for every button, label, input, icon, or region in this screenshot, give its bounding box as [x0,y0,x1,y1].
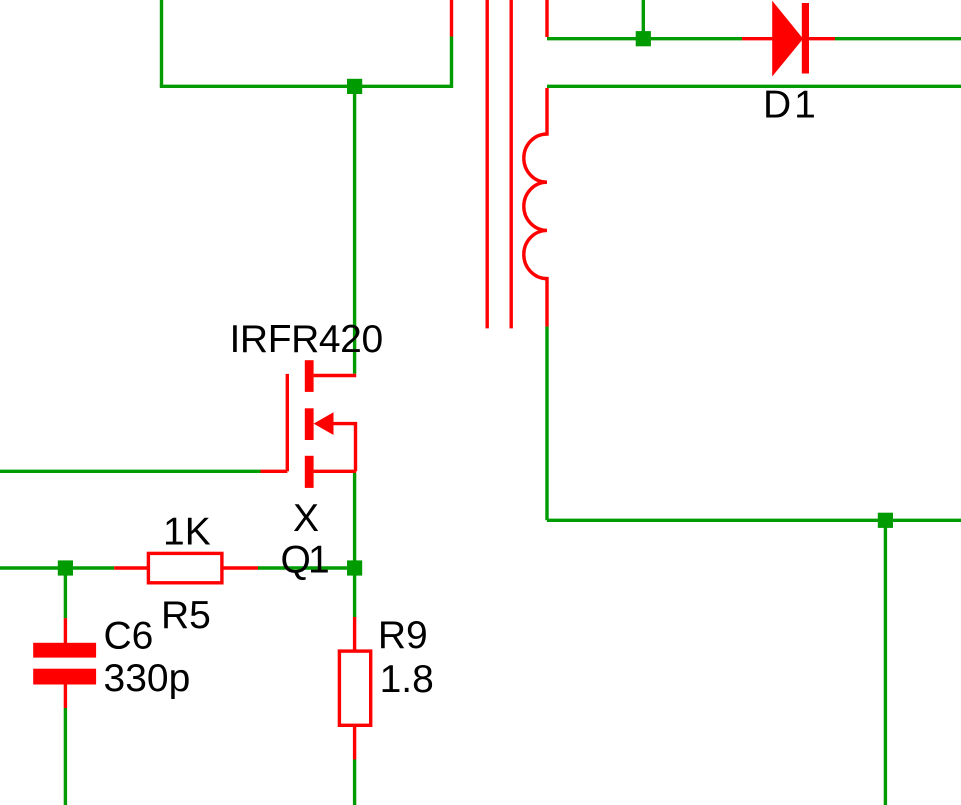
wire: secondary top net horizontal [547,85,961,88]
diode D1 cathode bar [802,3,809,74]
wire: C6 vertical [64,568,67,618]
resistor R9 top pin wire [353,617,356,651]
transformer T1 secondary winding: top lead, 3 arcs, bottom lead [524,88,547,327]
wire: R9 bottom vertical [353,760,356,805]
capacitor C6 top pin wire [64,618,67,643]
wire: C6 bottom vertical [64,708,67,805]
capacitor C6 plate 1 [33,643,96,658]
svg-text:D1: D1 [763,83,819,126]
transformer T1 primary bottom pin wire [450,0,453,37]
wire: left vertical of drain net [160,0,163,86]
wire: secondary bottom vertical [545,327,548,521]
wire: R5 net horizontal [0,566,114,569]
svg-text:R9: R9 [378,614,428,657]
node: Q1 source junction [347,560,362,575]
capacitor C6 bottom pin wire [64,685,67,709]
svg-text:X: X [293,497,319,540]
wire: secondary bottom horizontal [547,519,961,522]
capacitor C6 plate 2 [33,669,96,685]
svg-text:R5: R5 [161,594,211,637]
transformer T1 aux winding bottom pin wire [545,0,548,37]
node: secondary bottom junction [878,513,893,528]
transistor Q1: source tap [314,470,357,473]
transistor Q1: channel bar 3 (source) [305,456,314,488]
resistor R5 right pin wire [222,566,258,569]
transistor Q1: channel bar 1 (drain) [305,360,314,392]
wire: source vertical down to junction [353,473,356,568]
svg-text:Q1: Q1 [281,539,329,582]
transistor Q1: gate pin wire [261,470,288,473]
transistor Q1: body diode arrow [314,412,334,435]
diode D1 cathode pin wire [808,37,835,40]
wire: R9 top vertical [353,568,356,617]
diode D1 anode pin wire [742,37,774,40]
wire: aux net horizontal (top right) [547,37,742,40]
resistor R5 body [148,553,222,582]
wire: vertical up from aux net junction [642,0,645,39]
node: C6 junction [58,560,73,575]
wire: vertical down from secondary bottom junction [884,520,887,805]
transformer T1 core line 1 [486,0,489,328]
svg-text:IRFR420: IRFR420 [230,318,383,361]
node: aux net junction [636,31,651,46]
svg-text:C6: C6 [104,615,154,658]
svg-text:1.8: 1.8 [380,658,434,701]
transistor Q1: body connection to source [331,424,356,472]
wire: drain net horizontal [160,85,452,88]
wire: green stub under transformer primary pin [450,37,453,89]
transistor Q1: gate vertical [286,374,289,471]
wire: drain vertical down to Q1 [353,86,356,374]
transistor Q1: drain tap [314,374,357,377]
svg-text:1K: 1K [163,511,211,554]
svg-text:330p: 330p [104,657,191,700]
node: drain net junction [347,79,362,94]
transformer T1 core line 2 [510,0,513,328]
resistor R9 bottom pin wire [353,725,356,759]
transistor Q1: channel bar 2 (body) [305,408,314,440]
resistor R9 body [339,651,370,725]
wire: gate net horizontal [0,470,261,473]
diode D1 triangle [773,4,802,74]
resistor R5 left pin wire [114,566,148,569]
